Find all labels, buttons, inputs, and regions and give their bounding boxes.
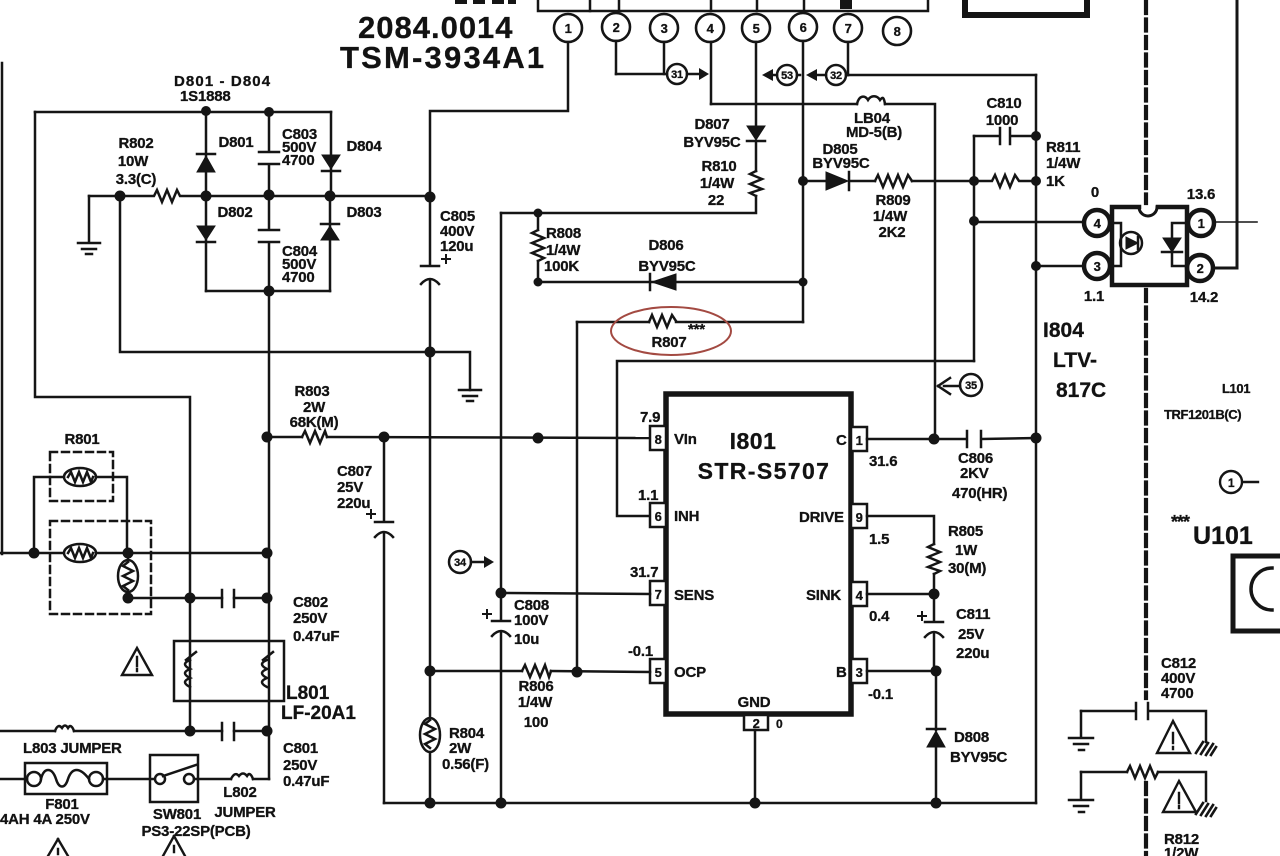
label GND (738, 694, 771, 711)
svg-text:4: 4 (707, 21, 715, 36)
svg-text:-0.1: -0.1 (868, 686, 893, 703)
wire R801a left (34, 477, 65, 553)
vertical AC line left (268, 291, 271, 779)
svg-text:R810: R810 (701, 158, 736, 175)
label C802 (293, 594, 339, 645)
svg-text:SENS: SENS (674, 587, 714, 604)
svg-text:250V: 250V (283, 757, 317, 774)
node 598 mid (185, 593, 196, 604)
svg-text:1/4W: 1/4W (546, 242, 581, 259)
svg-text:B: B (836, 664, 847, 681)
svg-text:LF-20A1: LF-20A1 (281, 703, 356, 724)
wire pin2 down (615, 41, 618, 74)
wire to opto pin4 (974, 221, 1083, 224)
wire D805 to R809 (851, 180, 875, 183)
svg-text:0: 0 (776, 717, 783, 731)
svg-text:1: 1 (1198, 216, 1205, 231)
left border wire (1, 63, 4, 554)
svg-text:2: 2 (1197, 261, 1204, 276)
switch SW801 (155, 765, 196, 784)
thermistor R801c oval (118, 553, 138, 598)
svg-text:TSM-3934A1: TSM-3934A1 (340, 40, 546, 75)
pin 6 voltage (638, 487, 658, 504)
label R805 (948, 523, 986, 577)
wire R809 to node (912, 180, 974, 183)
svg-text:13.6: 13.6 (1187, 186, 1215, 203)
svg-text:D803: D803 (346, 204, 381, 221)
label R808 (544, 225, 581, 275)
diode D801 (197, 112, 215, 196)
wire pin6 lower (802, 181, 805, 322)
pin 5 voltage (628, 643, 653, 660)
resistor R804 in oval (420, 671, 440, 803)
svg-text:4: 4 (856, 588, 864, 603)
wire L804 to corner down (885, 104, 935, 439)
partial text T801 cut at top (455, 0, 516, 4)
label STR-S5707 (698, 458, 831, 484)
node mid D801 (201, 191, 212, 202)
wire C810 left vertical (973, 136, 976, 361)
svg-text:D804: D804 (346, 138, 382, 155)
capacitor C802 (222, 590, 234, 607)
resistor R807 (649, 315, 676, 327)
node 598 left (123, 593, 134, 604)
wire pin7 down (847, 42, 850, 75)
label L802 (214, 784, 276, 821)
asterisks R807 (688, 321, 705, 338)
node top rail D801 (201, 106, 211, 116)
svg-text:BYV95C: BYV95C (812, 155, 870, 172)
wire down from corner x=501 (500, 213, 503, 593)
wire R812 right (1158, 772, 1206, 801)
label C805 (440, 208, 475, 255)
resistor R801b oval (64, 544, 96, 562)
IC I801 box (666, 394, 851, 714)
svg-text:5: 5 (753, 21, 760, 36)
return line from R802 node (120, 196, 470, 390)
opto pin circle 4 (1084, 210, 1110, 236)
node B row (931, 666, 942, 677)
wire C pin row (867, 438, 934, 441)
title text TSM-3934A1 (340, 40, 546, 75)
label R809 (873, 192, 911, 241)
svg-text:6: 6 (800, 20, 807, 35)
capacitor C804 (259, 196, 279, 291)
diode D807 (747, 126, 765, 141)
svg-text:0: 0 (1091, 184, 1099, 201)
node R808 top (534, 209, 543, 218)
wire D807 to R810 (755, 141, 758, 171)
pin circle 4 (696, 14, 724, 42)
node bridge bottom (264, 286, 275, 297)
warning triangle bottom 1 (48, 839, 68, 856)
svg-text:LTV-: LTV- (1053, 349, 1097, 372)
svg-text:4700: 4700 (282, 269, 315, 286)
pin 7 voltage (630, 564, 658, 581)
chassis hatch right of C812 (1196, 742, 1216, 755)
svg-text:BYV95C: BYV95C (638, 258, 696, 275)
opto pin circle 2 (1187, 255, 1213, 281)
svg-text:I804: I804 (1043, 319, 1084, 342)
label R803 (290, 383, 339, 431)
svg-text:C811: C811 (956, 606, 990, 623)
pin 9 voltage (869, 531, 889, 548)
wire pins2-3 to node 31 (616, 73, 667, 76)
svg-text:35: 35 (965, 380, 977, 392)
wire SW801 to L802 (194, 778, 231, 781)
capacitor C806 (934, 431, 1036, 447)
svg-text:STR-S5707: STR-S5707 (698, 458, 831, 484)
node C810 right (1031, 131, 1041, 141)
pin 8 VIn box (650, 426, 666, 450)
pin circle 2 (602, 13, 630, 41)
svg-text:3: 3 (856, 665, 863, 680)
svg-text:120u: 120u (440, 238, 473, 255)
svg-text:SINK: SINK (806, 587, 841, 604)
pin 7 SENS box (650, 581, 666, 605)
svg-text:L101: L101 (1222, 381, 1250, 396)
node rail R804 (425, 798, 436, 809)
label D808 (950, 729, 1008, 766)
diode D802 (197, 196, 215, 291)
node OCP left (425, 666, 436, 677)
svg-text:L803 JUMPER: L803 JUMPER (23, 740, 122, 757)
svg-text:R801: R801 (64, 431, 99, 448)
arrow into pin6 wire (797, 69, 826, 81)
svg-text:D802: D802 (217, 204, 252, 221)
wire F801 to SW801 (103, 778, 153, 781)
svg-text:***: *** (1171, 512, 1190, 532)
svg-text:7: 7 (655, 587, 662, 602)
svg-text:3: 3 (661, 21, 668, 36)
svg-text:34: 34 (454, 557, 467, 569)
fuse F801 (27, 770, 103, 787)
node rail D808 (931, 798, 942, 809)
svg-text:C810: C810 (986, 95, 1021, 112)
svg-text:-0.1: -0.1 (628, 643, 653, 660)
label C804 (282, 243, 318, 286)
svg-text:100: 100 (524, 714, 548, 731)
svg-text:1000: 1000 (986, 112, 1019, 129)
ground R802 (78, 196, 100, 254)
label C811 (956, 606, 990, 662)
label D804 (346, 138, 382, 155)
pin circle 8 (883, 17, 911, 45)
node rail C808 (496, 798, 507, 809)
wire bridge bottom (206, 290, 330, 293)
svg-text:***: *** (688, 321, 705, 338)
node 34 (449, 551, 494, 573)
svg-text:220u: 220u (337, 495, 370, 512)
wire pin6 down (802, 41, 805, 181)
svg-text:8: 8 (894, 24, 901, 39)
plus C807 (367, 510, 375, 518)
top rail (35, 111, 331, 114)
wire R812 row (1081, 771, 1127, 774)
svg-text:1.5: 1.5 (869, 531, 889, 548)
wire R802 left (89, 195, 120, 198)
node 553 therm (123, 548, 134, 559)
pin circle 5 (742, 14, 770, 42)
R801 dashed box upper (50, 452, 113, 501)
diode D808 (927, 671, 945, 803)
pin 6 INH box (650, 503, 666, 527)
resistor R801a oval (64, 468, 96, 486)
svg-text:31: 31 (671, 69, 683, 81)
svg-text:R811: R811 (1046, 139, 1080, 156)
node 35 (938, 374, 982, 396)
svg-text:2: 2 (613, 20, 620, 35)
label C807 (337, 463, 372, 512)
svg-text:MD-5(B): MD-5(B) (846, 124, 902, 141)
U101 transistor circle (1251, 568, 1272, 610)
warning triangle mid-left (122, 648, 152, 675)
vertical bus right of IC (1035, 75, 1038, 803)
svg-text:31.7: 31.7 (630, 564, 658, 581)
capacitor C803 (259, 112, 279, 196)
warning triangle near R812 (1163, 781, 1196, 812)
svg-text:8: 8 (655, 432, 662, 447)
plus C805 (442, 255, 450, 263)
warning triangle near C812 (1157, 721, 1190, 753)
svg-text:2W: 2W (449, 740, 472, 757)
wire DRIVE row (867, 516, 934, 544)
label R812 (1164, 831, 1199, 856)
wire R810 to left rail (501, 196, 756, 213)
wire into F801 (0, 778, 27, 781)
svg-text:3: 3 (1094, 259, 1101, 274)
label R810 (700, 158, 737, 209)
svg-text:31.6: 31.6 (869, 453, 897, 470)
node mid D803 (325, 191, 336, 202)
node opto pin4 wire (969, 216, 979, 226)
node 731 right (262, 726, 273, 737)
wire D806 row (538, 281, 804, 284)
svg-text:JUMPER: JUMPER (214, 804, 276, 821)
resistor R808 (532, 213, 544, 261)
svg-text:PS3-22SP(PCB): PS3-22SP(PCB) (141, 823, 250, 840)
svg-text:D807: D807 (694, 116, 729, 133)
wire B pin row (867, 670, 936, 673)
svg-text:SW801: SW801 (153, 806, 201, 823)
page divider dashed line (1144, 2, 1148, 856)
diode D805 (826, 172, 849, 190)
svg-text:1K: 1K (1046, 173, 1065, 190)
svg-text:C801: C801 (283, 740, 318, 757)
svg-text:100K: 100K (544, 258, 579, 275)
wire R808 bottom (537, 261, 540, 282)
wire pin7 line to right corner (848, 74, 1036, 77)
label D803 (346, 204, 381, 221)
node mid C803 (264, 190, 275, 201)
svg-text:1/2W: 1/2W (1164, 845, 1199, 856)
label U101 (1193, 522, 1253, 550)
diode D804 (322, 112, 340, 196)
wire pin5 down (755, 42, 758, 126)
svg-text:R805: R805 (948, 523, 983, 540)
node rail pin8 branch (533, 433, 544, 444)
wire 32 to pin7 (846, 74, 848, 77)
opto pin circle 1 (1188, 210, 1214, 236)
svg-text:BYV95C: BYV95C (950, 749, 1008, 766)
resistor R805 (928, 544, 940, 574)
svg-text:INH: INH (674, 508, 699, 525)
pin 2 GND box (744, 715, 768, 731)
warning triangle bottom 2 (163, 836, 185, 856)
label F801 (0, 796, 90, 828)
label D801 (218, 134, 253, 151)
U101 box (1233, 556, 1280, 631)
svg-text:0.47uF: 0.47uF (283, 773, 329, 790)
inductor L802 (231, 774, 253, 780)
svg-text:10u: 10u (514, 631, 539, 648)
node 31 (667, 64, 687, 84)
svg-text:25V: 25V (958, 626, 984, 643)
resistor R812 (1127, 766, 1158, 778)
pin 1 voltage (869, 453, 897, 470)
label R806 (518, 678, 554, 731)
node SINK (929, 589, 940, 600)
wire D805 row (803, 180, 826, 183)
svg-text:1W: 1W (955, 542, 978, 559)
svg-text:6: 6 (655, 509, 662, 524)
svg-text:VIn: VIn (674, 431, 697, 448)
node rail GND pin (750, 798, 761, 809)
label C808 (514, 597, 549, 648)
svg-text:7: 7 (845, 21, 852, 36)
svg-text:DRIVE: DRIVE (799, 509, 844, 526)
svg-text:R808: R808 (546, 225, 581, 242)
label I804 LTV-817C (1043, 319, 1106, 402)
pin 2 voltage (776, 717, 783, 731)
resistor R806 (522, 665, 551, 677)
node pin6 D806 junction (799, 278, 808, 287)
svg-text:68K(M): 68K(M) (290, 414, 339, 431)
svg-text:C807: C807 (337, 463, 372, 480)
label L803 jumper (23, 740, 122, 757)
label D805 (812, 141, 870, 172)
opto pin circle 3 (1084, 253, 1110, 279)
label D801-D804 1S1888 (174, 73, 271, 105)
pin 1 C box (851, 427, 867, 451)
svg-text:0.47uF: 0.47uF (293, 628, 339, 645)
capacitor C811 (925, 594, 943, 671)
optocoupler I804 box (1112, 207, 1187, 285)
svg-text:R803: R803 (294, 383, 329, 400)
svg-text:I801: I801 (730, 428, 777, 454)
label R811 (1046, 139, 1081, 190)
node R811 right (1031, 176, 1041, 186)
label I801 (730, 428, 777, 454)
label R804 (442, 725, 489, 773)
label C803 (282, 126, 317, 169)
opto LED (1112, 223, 1142, 266)
svg-text:250V: 250V (293, 610, 327, 627)
node 598 right (262, 593, 273, 604)
wire R801a right (96, 477, 127, 553)
svg-text:U101: U101 (1193, 522, 1253, 550)
plus C811 (918, 612, 926, 620)
opto photodiode (1162, 223, 1187, 266)
svg-text:R806: R806 (518, 678, 553, 695)
label C812 (1161, 655, 1196, 702)
wire R807 row (577, 321, 803, 324)
wire GND pin down (754, 730, 757, 803)
capacitor C801 (222, 723, 234, 740)
node C806 left (929, 434, 940, 445)
pin 9 DRIVE box (851, 504, 867, 528)
wire L802 to AC line (253, 778, 269, 781)
wire pin4 horizontal with L804 (711, 103, 857, 106)
red ellipse annotation (611, 307, 731, 355)
svg-text:14.2: 14.2 (1190, 289, 1218, 306)
resistor R803 (302, 431, 327, 443)
svg-text:7.9: 7.9 (640, 409, 660, 426)
wire to opto pin3 (1036, 265, 1083, 268)
left drop from top rail (35, 112, 190, 731)
plus C808 (483, 610, 491, 618)
svg-text:22: 22 (708, 192, 724, 209)
label C806 (952, 450, 1007, 502)
wire pin4 down (710, 42, 713, 104)
label D807 (683, 116, 741, 151)
svg-text:10W: 10W (118, 153, 149, 170)
svg-text:L802: L802 (223, 784, 256, 801)
opto voltage labels (1084, 184, 1218, 306)
wire opto pin2 to top right (1214, 0, 1237, 268)
svg-text:C802: C802 (293, 594, 328, 611)
L801 filter box (174, 641, 284, 701)
arrow from 31 to pin4 wire (687, 68, 709, 80)
label L804 (846, 110, 902, 141)
pin 3 voltage (868, 686, 893, 703)
svg-text:1/4W: 1/4W (873, 208, 908, 225)
transformer box top right (965, 0, 1087, 15)
mid rail bridge (206, 195, 430, 198)
svg-text:1: 1 (856, 433, 863, 448)
node R808 bottom (534, 278, 543, 287)
label R801 (64, 431, 99, 448)
diode D803 (321, 196, 339, 291)
svg-text:1/4W: 1/4W (518, 694, 553, 711)
svg-text:OCP: OCP (674, 664, 706, 681)
svg-text:BYV95C: BYV95C (683, 134, 741, 151)
pin 8 voltage (640, 409, 660, 426)
ground left of C812 (1069, 711, 1093, 750)
wire R807 left drop (576, 322, 579, 672)
switch SW801 box (150, 755, 198, 802)
svg-text:R809: R809 (875, 192, 910, 209)
node SENS C808 (496, 588, 507, 599)
node 553 left (29, 548, 40, 559)
svg-text:0.56(F): 0.56(F) (442, 756, 489, 773)
svg-text:1/4W: 1/4W (700, 175, 735, 192)
svg-text:5: 5 (655, 665, 662, 680)
AC rail y598 (128, 597, 267, 600)
svg-text:1.1: 1.1 (638, 487, 658, 504)
svg-text:0.4: 0.4 (869, 608, 890, 625)
node R811 left (969, 176, 979, 186)
node OCP right (572, 667, 583, 678)
wire opto pin1 right (1215, 221, 1257, 223)
svg-text:2KV: 2KV (960, 465, 989, 482)
node C806 right (1031, 433, 1042, 444)
fuse F801 box (25, 763, 107, 794)
L801 winding right (262, 652, 273, 687)
label L801 (281, 683, 356, 724)
resistor R810 (750, 171, 762, 196)
svg-text:4700: 4700 (282, 152, 315, 169)
